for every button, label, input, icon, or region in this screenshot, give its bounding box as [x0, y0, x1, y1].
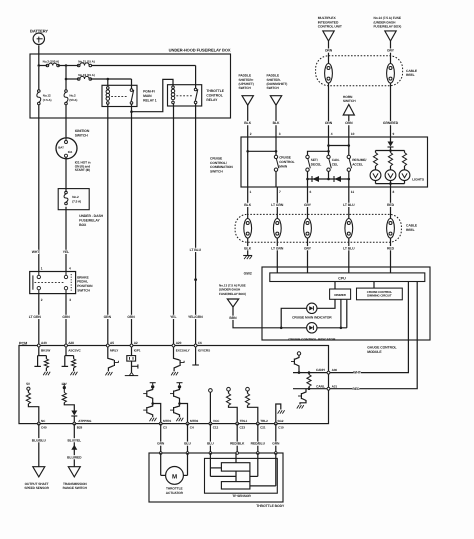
PCM terminal A20 pin EXCSALY — [172, 344, 175, 347]
wire BRN fuse13 to indicator — [233, 307, 262, 328]
svg-text:2: 2 — [41, 298, 43, 302]
svg-text:BLU/YEL: BLU/YEL — [67, 438, 81, 442]
svg-text:(7.5 A): (7.5 A) — [72, 199, 81, 203]
svg-text:IGY/CRS: IGY/CRS — [198, 349, 210, 353]
dimmer box — [330, 289, 351, 299]
wire BLK paddle+ to switch terminal 2 — [247, 105, 249, 137]
svg-text:RELAY: RELAY — [206, 98, 218, 102]
svg-text:DIMMING CIRCUIT: DIMMING CIRCUIT — [367, 294, 392, 298]
wire CAN A to PCM — [329, 282, 409, 373]
svg-text:WHT: WHT — [32, 250, 41, 254]
cruise control main switch — [274, 155, 277, 158]
svg-text:GRY: GRY — [304, 246, 312, 250]
fuse No.2 (50 A) — [65, 90, 68, 93]
svg-text:CEL: CEL — [332, 162, 338, 166]
svg-text:BLU/RED: BLU/RED — [67, 455, 82, 459]
wire LT GRN brake switch to PCM A40 — [38, 294, 40, 346]
PCM MRLY driver transistor Q1 — [108, 347, 114, 360]
PCM IGP1 circuit — [131, 347, 133, 356]
svg-text:C23: C23 — [240, 425, 246, 429]
svg-text:GRN: GRN — [62, 315, 70, 319]
svg-text:FUSE/RELAY BOX): FUSE/RELAY BOX) — [374, 25, 402, 29]
svg-text:MTR2: MTR2 — [190, 419, 199, 423]
PCM 12V resistor — [62, 393, 66, 403]
wire line B down to PGM-FI relay contact — [131, 79, 133, 89]
svg-text:GAUGE CONTROL: GAUGE CONTROL — [367, 346, 396, 350]
svg-text:1: 1 — [250, 190, 252, 194]
svg-text:BLU/BLU: BLU/BLU — [32, 438, 47, 442]
svg-text:GRN: GRN — [157, 442, 165, 446]
svg-text:CONTROL: CONTROL — [279, 160, 294, 164]
TP sensor wiring — [209, 453, 211, 476]
svg-text:REEL: REEL — [406, 73, 415, 77]
svg-text:11: 11 — [351, 190, 355, 194]
PCM TRL2 pull-up resistor — [246, 387, 250, 391]
svg-text:SWITCH: SWITCH — [267, 86, 280, 90]
lamp bottom bus — [375, 181, 377, 184]
wire PGM-FI relay coil top — [107, 79, 109, 86]
resistor lamp 1 — [375, 151, 377, 153]
wire BLK cable reel to ground — [247, 238, 249, 255]
lamp 1 — [375, 166, 377, 170]
svg-text:RANGE SWITCH: RANGE SWITCH — [63, 486, 88, 490]
svg-text:TRL1: TRL1 — [240, 419, 248, 423]
svg-text:ATPPWG: ATPPWG — [78, 419, 92, 423]
svg-text:C3: C3 — [163, 425, 167, 429]
svg-text:CANL: CANL — [316, 384, 325, 388]
wire GRN brake switch to PCM A28 — [65, 294, 67, 346]
PCM terminal A2 pin IGP1 — [130, 344, 133, 347]
svg-text:GRN: GRN — [104, 315, 112, 319]
svg-text:C10: C10 — [278, 425, 284, 429]
wire 12V through diode to terminal B28 — [64, 403, 74, 411]
PCM terminal C21 wire RED/BLU — [256, 422, 259, 425]
svg-text:A20: A20 — [176, 341, 182, 345]
svg-text:SWITCH: SWITCH — [210, 170, 223, 174]
cruise control indicator LED — [307, 323, 317, 333]
diode D1 — [313, 176, 320, 182]
cruise control dimming circuit box — [357, 288, 403, 300]
PCM EXCSALY driver transistor Q2 — [174, 347, 180, 360]
wire GRY fuse14 to cable reel — [390, 41, 392, 64]
wire GRN relay1 coil to PCM A5 — [107, 104, 109, 346]
svg-text:YEL: YEL — [170, 315, 176, 319]
PCM terminal C4 wire BLU — [186, 422, 189, 425]
cancel switch — [327, 155, 330, 158]
throttle body box — [149, 453, 283, 502]
svg-text:YEL/GRN: YEL/GRN — [188, 315, 203, 319]
wire MTR1 output to C3 — [153, 404, 161, 424]
throttle body terminal C23 — [236, 452, 239, 455]
svg-text:BRN: BRN — [229, 316, 237, 320]
PCM terminal A28 pin ASCSVC — [65, 344, 68, 347]
svg-text:DIMMER: DIMMER — [334, 293, 346, 297]
lamp 2 — [390, 166, 392, 170]
cable reel connector RED — [387, 219, 395, 239]
wire MTR2 output to C4 — [180, 404, 188, 424]
PCM terminal A40 pin BKSW — [37, 344, 40, 347]
wire set output to terminal 6 — [307, 179, 309, 187]
ground G502 — [243, 255, 252, 257]
svg-text:C21: C21 — [260, 425, 266, 429]
wire RED switch to cable reel — [390, 187, 392, 219]
brake pedal position switch — [30, 272, 76, 294]
svg-text:10: 10 — [351, 132, 355, 136]
diode bus — [307, 171, 309, 179]
svg-text:A30: A30 — [332, 368, 338, 372]
svg-text:GRY: GRY — [387, 49, 395, 53]
wire ORN relay1 contact to PCM A2 — [131, 112, 133, 346]
lamp 3 — [404, 166, 406, 170]
throttle body terminal C4 — [186, 452, 189, 455]
svg-text:6: 6 — [310, 190, 312, 194]
svg-text:ORN: ORN — [127, 315, 135, 319]
under-dash fuse/relay box with fuse No.2 (7.5 A) — [58, 189, 89, 210]
wire ORN cable reel to switch terminal 4 — [328, 83, 330, 137]
svg-text:RED: RED — [387, 203, 395, 207]
svg-text:DECEL: DECEL — [311, 162, 322, 166]
svg-text:C12: C12 — [213, 425, 219, 429]
PCM terminal C40 to output shaft speed sensor — [37, 422, 40, 425]
svg-text:SWITCH: SWITCH — [75, 133, 89, 137]
PCM CANH line — [293, 372, 329, 374]
TP sensor track 2 — [221, 482, 250, 489]
PCM IGY/CRS stub — [195, 347, 197, 365]
wire GRN/RED cable reel to switch terminal 9 — [390, 83, 392, 137]
wire ORN multiplex to cable reel — [328, 41, 330, 64]
svg-text:TP SENSOR: TP SENSOR — [232, 494, 251, 498]
svg-text:CPU: CPU — [338, 277, 346, 281]
svg-text:THROTTLE: THROTTLE — [206, 89, 224, 93]
svg-text:BLU: BLU — [207, 442, 214, 446]
node bus A y65.5 — [39, 65, 48, 67]
wire CAN B to PCM — [329, 282, 418, 389]
wire LT BLU cable reel to gauge module — [348, 238, 350, 273]
wire LT GRN cable reel to gauge module — [276, 238, 278, 273]
svg-text:TRL2: TRL2 — [260, 419, 268, 423]
wire cruise control indicator row — [262, 327, 307, 329]
wire fuse12 to box bottom — [38, 67, 40, 90]
svg-text:ORN: ORN — [325, 49, 333, 53]
svg-text:B28: B28 — [77, 425, 83, 429]
svg-text:CANH: CANH — [316, 368, 326, 372]
diode D2 — [335, 176, 342, 182]
wire 5V to terminal C40 — [28, 404, 38, 424]
gauge control module box — [262, 267, 430, 340]
wire dimming circuit leg — [346, 300, 348, 328]
svg-text:IG1: IG1 — [68, 150, 73, 154]
svg-text:SG2: SG2 — [277, 419, 283, 423]
wire RED cable reel to gauge module — [390, 238, 392, 273]
fuse No.3 (100 A) — [46, 64, 49, 67]
cable reel connector LT BLU — [345, 219, 353, 239]
wire YEL under-dash fuse to brake switch — [65, 207, 67, 271]
resistor lamp 2 — [390, 151, 392, 153]
svg-text:PGM-FI: PGM-FI — [143, 90, 155, 94]
svg-text:SPEED SENSOR: SPEED SENSOR — [24, 486, 49, 490]
TP sensor track 1 — [221, 463, 250, 471]
svg-text:4: 4 — [331, 132, 333, 136]
svg-text:BLK: BLK — [244, 203, 251, 207]
svg-text:UNDER-HOOD FUSE/RELAY BOX: UNDER-HOOD FUSE/RELAY BOX — [169, 47, 231, 52]
cable reel connector GRY — [304, 219, 312, 239]
cable reel connector BLK — [244, 219, 252, 239]
svg-text:START (III): START (III) — [75, 168, 90, 172]
wire ORN horn switch to terminal 10 — [348, 115, 350, 137]
TP sensor box — [205, 458, 278, 493]
svg-text:4: 4 — [69, 267, 71, 271]
svg-text:M: M — [172, 473, 177, 480]
svg-text:FUSE/RELAY BOX): FUSE/RELAY BOX) — [219, 292, 246, 296]
svg-text:(50 A): (50 A) — [69, 98, 77, 102]
wire main switch to terminal 7 — [275, 171, 277, 187]
throttle body terminal C3 — [159, 452, 162, 455]
CPU box — [270, 273, 425, 282]
wire terminal 9 into lights — [390, 137, 392, 142]
svg-text:ACCEL: ACCEL — [352, 162, 363, 166]
svg-text:VCC: VCC — [213, 419, 220, 423]
wire terminal 3 down — [275, 137, 277, 155]
svg-text:ASCSVC: ASCSVC — [68, 349, 81, 353]
lights resistor bus — [376, 150, 405, 152]
svg-text:8: 8 — [393, 190, 395, 194]
under-hood fuse/relay box — [30, 54, 231, 118]
wire dimmer second leg — [340, 299, 342, 328]
svg-text:LT GRN: LT GRN — [271, 246, 284, 250]
cable reel lower — [235, 214, 401, 242]
svg-text:ORN: ORN — [345, 121, 353, 125]
resistor lamp 3 — [404, 151, 406, 153]
PCM CANL line — [293, 388, 329, 390]
relay THROTTLE CONTROL RELAY — [168, 85, 202, 106]
svg-text:C4: C4 — [190, 425, 194, 429]
svg-text:BKSW: BKSW — [41, 349, 50, 353]
wire line A down to throttle control relay contact — [195, 66, 197, 89]
PCM terminal A5 pin MRLY — [106, 344, 109, 347]
svg-text:CAN-: CAN- — [332, 158, 340, 162]
svg-text:MAIN: MAIN — [279, 165, 288, 169]
svg-text:BLU: BLU — [184, 442, 191, 446]
svg-text:BAT: BAT — [58, 145, 64, 149]
svg-text:CONTROL: CONTROL — [206, 94, 222, 98]
svg-text:C40: C40 — [41, 425, 47, 429]
wire YEL relay2 coil to PCM A20 — [173, 104, 175, 346]
wire BLK switch to cable reel — [247, 187, 249, 219]
throttle body terminal C10 — [275, 452, 278, 455]
svg-text:(7.5 A): (7.5 A) — [43, 98, 52, 102]
PCM CAN termination resistor — [308, 371, 311, 374]
PCM VCC supply to C12 — [209, 389, 213, 393]
PCM A40 input circuit — [38, 347, 40, 356]
PCM motor driver pair MTR1 — [150, 382, 156, 384]
svg-text:LT BLU: LT BLU — [190, 248, 202, 252]
svg-text:CRUISE MAIN INDICATOR: CRUISE MAIN INDICATOR — [292, 316, 332, 320]
svg-text:No.19 (15 A): No.19 (15 A) — [78, 73, 95, 77]
svg-text:LIGHTS: LIGHTS — [412, 177, 425, 181]
svg-text:A28: A28 — [68, 341, 74, 345]
svg-text:RED/BLK: RED/BLK — [230, 442, 245, 446]
svg-text:REEL: REEL — [406, 228, 415, 232]
wire battery to fuse box — [38, 45, 40, 65]
svg-text:FUSE/RELAY: FUSE/RELAY — [79, 218, 100, 222]
wire relay2 contact to PCM C6 — [195, 104, 197, 346]
wire lights to terminal 8 — [390, 184, 392, 187]
fuse No.21 (15 A) — [77, 64, 80, 67]
resume/accel switch — [347, 155, 350, 158]
wire GRY switch to cable reel — [307, 187, 309, 219]
cruise main indicator LED — [307, 303, 317, 313]
set/decel switch — [306, 155, 309, 158]
svg-text:3: 3 — [69, 298, 71, 302]
PCM terminal C6 pin IGY/CRS — [194, 344, 197, 347]
svg-text:2: 2 — [250, 132, 252, 136]
wire WHT battery feed to brake switch — [38, 118, 40, 271]
svg-text:LT BLU: LT BLU — [343, 246, 355, 250]
wire resume output to terminal 11 — [348, 179, 350, 187]
throttle body terminal C21 — [257, 452, 260, 455]
svg-text:RELAY 1: RELAY 1 — [143, 98, 157, 102]
svg-text:SWITCH: SWITCH — [77, 288, 90, 292]
PCM motor driver pair MTR2 — [177, 382, 183, 384]
cable reel connector ORN — [325, 64, 333, 84]
wire CPU to dimmer — [334, 282, 336, 290]
PCM terminal C10 wire GRN — [274, 422, 277, 425]
svg-text:GRY: GRY — [304, 203, 312, 207]
svg-text:RESUME/: RESUME/ — [352, 158, 366, 162]
svg-text:RED: RED — [387, 246, 395, 250]
svg-text:GRN/RED: GRN/RED — [383, 121, 399, 125]
ground bus main switch — [248, 150, 276, 152]
PCM SG2 sensor ground — [276, 404, 281, 424]
fuse No.12 (7.5 A) — [38, 90, 41, 93]
svg-text:ACTUATOR: ACTUATOR — [166, 491, 184, 495]
svg-text:A5: A5 — [110, 341, 114, 345]
svg-text:C6: C6 — [198, 341, 202, 345]
svg-text:MODULE: MODULE — [367, 350, 382, 354]
wire terminal 2 to terminal 1 — [247, 137, 249, 187]
arrow connector on wire — [71, 445, 77, 450]
svg-text:LT GRN: LT GRN — [29, 315, 42, 319]
PCM terminal C12 wire BLU — [209, 422, 212, 425]
cable reel upper — [316, 56, 403, 86]
wire BLK paddle- to switch terminal 3 — [275, 105, 277, 137]
cable reel connector LT GRN — [273, 219, 281, 239]
wire fuse2 to box bottom — [65, 67, 67, 90]
orn bus — [328, 137, 330, 155]
svg-text:YEL: YEL — [63, 250, 69, 254]
svg-text:SET/: SET/ — [311, 158, 318, 162]
svg-text:WHT: WHT — [353, 371, 362, 375]
sub bus to set switch — [308, 151, 329, 155]
relay PGM-FI MAIN RELAY 1 — [102, 85, 137, 106]
svg-text:SWITCH: SWITCH — [239, 86, 252, 90]
cable reel connector GRY — [387, 64, 395, 84]
svg-text:GRN: GRN — [272, 442, 280, 446]
svg-text:ORN: ORN — [325, 121, 333, 125]
throttle body terminal C12 — [209, 452, 212, 455]
svg-text:MRLY: MRLY — [110, 349, 119, 353]
svg-text:MAIN: MAIN — [143, 94, 152, 98]
PCM CAN driver lower — [302, 389, 306, 394]
svg-text:3: 3 — [279, 132, 281, 136]
svg-text:No.3 (100 A): No.3 (100 A) — [43, 60, 60, 64]
PCM A28 input circuit — [65, 347, 67, 356]
fuse No.19 (15 A) — [77, 78, 80, 81]
wire ignition to under-dash fuse — [65, 157, 67, 192]
PCM 5V resistor — [26, 393, 30, 404]
wire CPU to dimming circuit — [373, 282, 375, 289]
svg-text:7: 7 — [279, 190, 281, 194]
throttle actuator motor — [160, 453, 162, 475]
svg-text:RED/BLU: RED/BLU — [251, 442, 266, 446]
svg-text:RED: RED — [353, 387, 361, 391]
junction connector on wire C6 — [194, 278, 197, 281]
wire relay1 contact bottom to junction — [131, 104, 133, 112]
node bus B y79 — [66, 78, 79, 80]
svg-text:1: 1 — [41, 267, 43, 271]
svg-text:BOX: BOX — [79, 223, 87, 227]
wire GRY cable reel to gauge module — [307, 238, 309, 273]
diode lights — [388, 142, 394, 147]
svg-text:MTR1: MTR1 — [163, 419, 172, 423]
PCM terminal C23 wire RED/BLK — [236, 422, 239, 425]
svg-text:SWITCH: SWITCH — [343, 99, 356, 103]
svg-text:EXCSALY: EXCSALY — [176, 349, 191, 353]
svg-text:BLK: BLK — [244, 246, 251, 250]
svg-text:CRUISE CONTROL INDICATOR: CRUISE CONTROL INDICATOR — [288, 337, 336, 341]
svg-text:CRUISE: CRUISE — [279, 156, 291, 160]
svg-text:THROTTLE BODY: THROTTLE BODY — [256, 504, 285, 508]
wire cruise main indicator to left leg — [281, 308, 306, 328]
output shaft speed sensor reference — [33, 467, 45, 477]
wire LT GRN switch to cable reel — [276, 187, 278, 219]
svg-text:LT GRN: LT GRN — [271, 203, 284, 207]
transmission range switch reference — [68, 467, 80, 477]
svg-text:A40: A40 — [41, 341, 47, 345]
svg-text:CONTROL UNIT: CONTROL UNIT — [318, 25, 342, 29]
svg-text:G502: G502 — [244, 271, 252, 275]
wire dimmer to cruise main indicator — [317, 299, 335, 308]
svg-text:BLK: BLK — [244, 121, 251, 125]
svg-text:9: 9 — [393, 132, 395, 136]
PCM terminal C3 wire GRN — [159, 422, 162, 425]
wire LT BLU switch to cable reel — [348, 187, 350, 219]
svg-text:UNDER - DASH: UNDER - DASH — [79, 214, 104, 218]
wire IG feed to ignition switch — [65, 118, 67, 137]
wire junction to relay2 coil top — [132, 79, 174, 111]
PCM TRL1 pull-up resistor — [227, 387, 231, 391]
svg-text:A2: A2 — [134, 341, 138, 345]
PCM terminal B28 to transmission range switch — [73, 422, 76, 425]
svg-text:LT BLU: LT BLU — [343, 203, 355, 207]
svg-text:A31: A31 — [332, 384, 338, 388]
svg-text:IGP1: IGP1 — [134, 349, 141, 353]
PCM CAN driver upper — [297, 352, 300, 355]
svg-text:No.21 (15 A): No.21 (15 A) — [78, 60, 95, 64]
svg-text:BLK: BLK — [273, 121, 280, 125]
